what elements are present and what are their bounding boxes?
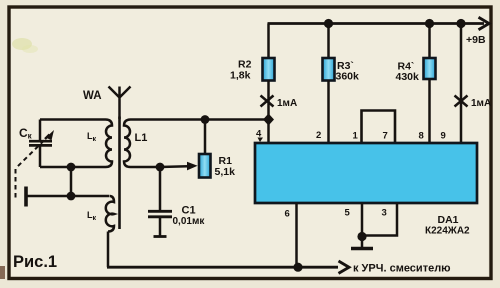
svg-text:1мА: 1мА bbox=[277, 98, 297, 109]
wire: tuned loop bottom bbox=[40, 166, 106, 169]
wire: junction down bbox=[70, 167, 73, 196]
svg-text:5,1k: 5,1k bbox=[215, 166, 236, 178]
svg-text:6: 6 bbox=[285, 209, 290, 220]
wire: L1 bottom tap bbox=[131, 166, 161, 169]
wire: loop left upper segment bbox=[39, 120, 42, 142]
node: C1 junction bbox=[156, 163, 165, 172]
wire: chassis to lower coil bbox=[27, 195, 109, 198]
wire: tuned loop top bbox=[40, 118, 106, 121]
capacitor Ck (variable) bbox=[29, 141, 52, 145]
svg-text:7: 7 bbox=[383, 131, 388, 142]
svg-text:L1: L1 bbox=[135, 132, 148, 144]
coil Lk upper (primary winding) bbox=[106, 120, 113, 168]
node: pin4 diamond junction bbox=[263, 114, 274, 126]
wire: pin 9 bbox=[456, 19, 465, 143]
wire: loop left lower segment bbox=[39, 145, 42, 167]
transformer core bbox=[118, 117, 121, 230]
wire: lower coil lead down bbox=[107, 232, 110, 268]
ground bbox=[351, 237, 373, 249]
wire: L1 top to pin4 node bbox=[131, 118, 269, 121]
meter mark X (pin9 branch) bbox=[455, 96, 468, 107]
resistor R2 bbox=[263, 24, 275, 120]
+9V arrowhead bbox=[479, 17, 490, 29]
svg-text:430k: 430k bbox=[396, 71, 420, 83]
svg-text:к УРЧ. смесителю: к УРЧ. смесителю bbox=[353, 263, 451, 275]
antenna WA bbox=[109, 87, 131, 120]
svg-text:3: 3 bbox=[382, 208, 387, 219]
svg-text:1,8k: 1,8k bbox=[230, 70, 251, 82]
svg-text:5: 5 bbox=[345, 208, 351, 219]
Ck dashed link bbox=[16, 141, 45, 202]
svg-text:C1: C1 bbox=[182, 205, 196, 217]
svg-text:1: 1 bbox=[353, 131, 359, 142]
svg-text:2: 2 bbox=[316, 130, 321, 141]
output arrowhead bbox=[339, 261, 350, 273]
svg-text:1мА: 1мА bbox=[471, 98, 491, 109]
wire: pin 5 bbox=[361, 203, 364, 237]
svg-text:+9В: +9В bbox=[466, 34, 486, 46]
svg-text:0,01мк: 0,01мк bbox=[173, 216, 206, 227]
node: R1 top junction bbox=[201, 115, 210, 124]
svg-text:360k: 360k bbox=[336, 71, 360, 83]
svg-text:К224ЖА2: К224ЖА2 bbox=[425, 226, 470, 237]
resistor R1 bbox=[199, 120, 211, 178]
+9V supply rail bbox=[268, 22, 485, 25]
wire: pin 3 bbox=[362, 203, 397, 236]
Ck adjustment arrow bbox=[45, 130, 54, 140]
coil L1 (secondary winding) bbox=[124, 120, 131, 168]
resistor R3 bbox=[323, 19, 335, 143]
node: loop bottom junction bbox=[67, 163, 76, 172]
node: lower junction bbox=[67, 192, 76, 201]
wire: tap arrow into R1 bbox=[160, 162, 198, 171]
svg-text:DA1: DA1 bbox=[438, 214, 459, 226]
wire: pin 4 bbox=[267, 120, 270, 144]
meter mark X (pin4 branch) bbox=[261, 96, 274, 107]
node: pin6 to rail bbox=[293, 263, 302, 272]
svg-text:Рис.1: Рис.1 bbox=[13, 253, 57, 271]
chassis bar bbox=[24, 187, 28, 207]
svg-text:9: 9 bbox=[441, 131, 446, 142]
output rail wire bbox=[107, 266, 338, 269]
svg-text:8: 8 bbox=[419, 131, 424, 142]
node: ground junction bbox=[357, 232, 366, 241]
jumper pins 1-7 bbox=[362, 111, 396, 144]
capacitor C1 bbox=[148, 167, 172, 237]
op-amp U1 / IC DA1 body bbox=[255, 143, 477, 203]
wire: pin 6 bbox=[295, 203, 298, 267]
coil Lk lower (coupling winding) bbox=[106, 196, 114, 232]
svg-text:WA: WA bbox=[83, 90, 102, 102]
resistor R4 bbox=[424, 19, 436, 143]
